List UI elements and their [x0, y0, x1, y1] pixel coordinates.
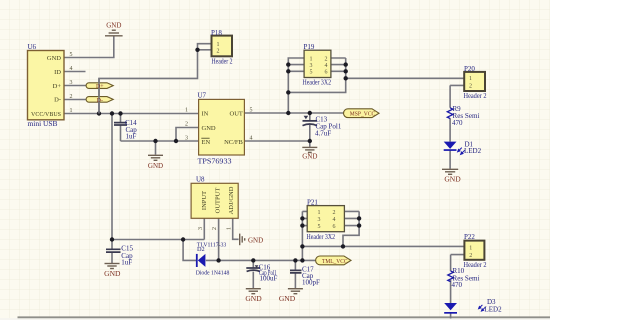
svg-text:1: 1	[217, 42, 220, 48]
svg-text:4: 4	[325, 63, 328, 69]
svg-text:Header 2: Header 2	[464, 92, 487, 100]
svg-text:1: 1	[70, 108, 73, 114]
svg-text:D+: D+	[96, 84, 104, 90]
svg-text:ADJ/GND: ADJ/GND	[228, 186, 235, 214]
svg-text:P20: P20	[464, 65, 475, 73]
svg-text:EN: EN	[202, 139, 211, 146]
svg-text:100pF: 100pF	[302, 279, 320, 287]
svg-text:D+: D+	[53, 83, 62, 90]
svg-text:3: 3	[198, 227, 204, 230]
svg-text:4: 4	[250, 136, 253, 142]
svg-text:GND: GND	[444, 175, 461, 184]
svg-text:Header 3X2: Header 3X2	[307, 233, 336, 241]
svg-text:5: 5	[70, 52, 73, 58]
svg-text:470: 470	[452, 119, 463, 127]
svg-text:5: 5	[250, 108, 253, 114]
svg-text:LED2: LED2	[464, 147, 482, 155]
svg-text:Diode 1N4148: Diode 1N4148	[196, 270, 230, 277]
svg-text:GND: GND	[248, 236, 263, 244]
svg-text:2: 2	[212, 227, 218, 230]
svg-text:1: 1	[185, 108, 188, 114]
svg-text:2: 2	[325, 56, 328, 62]
svg-text:P19: P19	[304, 43, 315, 51]
svg-text:6: 6	[325, 70, 328, 76]
svg-text:3: 3	[310, 63, 313, 69]
svg-text:1: 1	[469, 245, 472, 251]
svg-text:GND: GND	[148, 162, 163, 170]
svg-text:MSP_VCC: MSP_VCC	[350, 112, 376, 118]
svg-text:Header 3X2: Header 3X2	[303, 78, 332, 86]
svg-text:INPUT: INPUT	[201, 191, 208, 210]
svg-text:1: 1	[310, 56, 313, 62]
svg-text:2: 2	[185, 122, 188, 128]
svg-text:5: 5	[310, 70, 313, 76]
svg-text:GND: GND	[279, 294, 296, 303]
svg-text:6: 6	[333, 224, 336, 230]
svg-text:U6: U6	[28, 43, 37, 51]
svg-text:ID: ID	[54, 69, 61, 76]
svg-text:GND: GND	[47, 55, 61, 62]
svg-text:1: 1	[226, 227, 232, 230]
svg-text:Header 2: Header 2	[464, 261, 487, 269]
svg-text:2: 2	[217, 49, 220, 55]
svg-text:4: 4	[333, 217, 336, 223]
svg-text:Header 2: Header 2	[212, 58, 233, 66]
svg-text:2: 2	[469, 84, 472, 90]
svg-text:2: 2	[333, 210, 336, 216]
svg-text:1: 1	[318, 210, 321, 216]
svg-text:GND: GND	[104, 269, 121, 278]
svg-text:2: 2	[70, 94, 73, 100]
svg-text:3: 3	[70, 80, 73, 86]
svg-text:U7: U7	[198, 91, 207, 99]
svg-text:GND: GND	[106, 21, 121, 29]
svg-text:GND: GND	[245, 294, 262, 303]
svg-text:D-: D-	[97, 98, 103, 104]
svg-text:LED2: LED2	[485, 305, 503, 313]
svg-text:NC/FB: NC/FB	[224, 139, 243, 146]
svg-text:1: 1	[469, 76, 472, 82]
svg-text:OUT: OUT	[230, 111, 243, 118]
svg-text:P18: P18	[211, 29, 222, 37]
svg-text:3: 3	[318, 217, 321, 223]
svg-text:P22: P22	[464, 233, 475, 241]
svg-text:GND: GND	[202, 125, 216, 132]
svg-text:D2: D2	[197, 246, 205, 253]
svg-text:P21: P21	[307, 198, 318, 206]
svg-text:3: 3	[185, 136, 188, 142]
svg-text:5: 5	[318, 224, 321, 230]
svg-text:4: 4	[70, 66, 73, 72]
svg-text:GND: GND	[302, 152, 317, 160]
svg-text:4.7uF: 4.7uF	[315, 130, 331, 138]
svg-text:U8: U8	[196, 175, 205, 183]
svg-text:100uF: 100uF	[260, 275, 278, 283]
svg-text:IN: IN	[202, 111, 209, 118]
svg-text:470: 470	[452, 281, 463, 289]
svg-text:D-: D-	[54, 97, 61, 104]
svg-text:mini USB: mini USB	[28, 120, 58, 128]
svg-text:1uF: 1uF	[126, 132, 137, 140]
svg-text:TML_VCC: TML_VCC	[322, 259, 348, 265]
svg-text:OUTPUT: OUTPUT	[215, 188, 222, 214]
svg-text:VCC/VBUS: VCC/VBUS	[31, 111, 61, 118]
svg-text:2: 2	[469, 253, 472, 259]
svg-text:1uF: 1uF	[121, 258, 132, 266]
svg-text:TPS76933: TPS76933	[198, 157, 233, 165]
